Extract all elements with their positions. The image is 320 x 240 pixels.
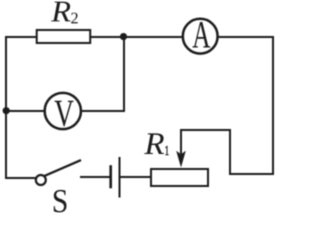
label R1 subscript 1 [165, 146, 168, 155]
wire bottom right horizontal [230, 173, 273, 175]
ammeter A [183, 19, 218, 54]
battery negative plate (short) [109, 167, 112, 188]
label A [192, 22, 210, 47]
switch S pivot circle [36, 175, 46, 185]
switch S lever [45, 161, 80, 176]
label R2 subscript 2 [71, 13, 78, 24]
wire bottom left to switch [6, 177, 36, 179]
wire slider horizontal [181, 129, 230, 131]
wire voltmeter branch right [82, 110, 125, 112]
wire top left [6, 36, 36, 38]
wire voltmeter branch left [6, 110, 44, 112]
wire left vertical [5, 37, 7, 178]
label V [54, 101, 73, 127]
wire slider riser [229, 130, 231, 174]
resistor R2 [37, 30, 90, 43]
wire battery to R1 [121, 176, 151, 178]
wire right vertical [272, 37, 274, 174]
label R2 [51, 2, 70, 22]
slider arrowhead [176, 151, 186, 168]
voltmeter V [45, 93, 81, 129]
label S [54, 190, 67, 212]
wire ammeter to right corner [218, 36, 273, 38]
node junction left for voltmeter branch [3, 107, 10, 114]
wire R2 to ammeter [91, 36, 182, 38]
node junction under R2 right [120, 33, 127, 40]
rheostat R1 [151, 169, 208, 186]
label R1 [144, 133, 164, 154]
wire mid vertical node to voltmeter branch [123, 37, 125, 111]
slider arrow shaft [180, 130, 182, 153]
battery positive plate (long) [119, 158, 121, 197]
wire switch contact to battery [81, 176, 109, 178]
